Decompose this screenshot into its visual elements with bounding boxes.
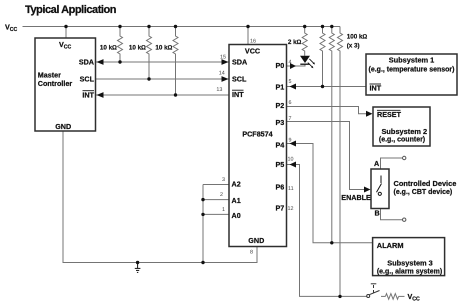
svg-text:Typical Application: Typical Application	[25, 4, 117, 16]
svg-text:SDA: SDA	[232, 58, 247, 67]
svg-text:INT: INT	[232, 90, 244, 99]
svg-text:10: 10	[288, 157, 294, 163]
svg-text:(x 3): (x 3)	[347, 42, 360, 49]
svg-text:Subsystem 1: Subsystem 1	[389, 56, 435, 65]
svg-text:Controlled Device: Controlled Device	[394, 179, 457, 188]
svg-text:A: A	[374, 159, 379, 168]
svg-text:8: 8	[250, 249, 253, 255]
svg-text:2: 2	[220, 192, 223, 198]
svg-text:2 kΩ: 2 kΩ	[288, 39, 302, 46]
svg-text:6: 6	[289, 100, 292, 106]
svg-text:P4: P4	[276, 141, 285, 150]
svg-text:9: 9	[289, 138, 292, 144]
svg-text:15: 15	[220, 54, 226, 60]
svg-text:(e.g., CBT device): (e.g., CBT device)	[394, 189, 453, 196]
svg-text:INT: INT	[370, 84, 382, 93]
svg-text:B: B	[375, 209, 380, 218]
svg-text:16: 16	[250, 39, 256, 45]
svg-text:ENABLE: ENABLE	[341, 193, 371, 202]
svg-text:GND: GND	[55, 122, 71, 131]
svg-text:VCC: VCC	[5, 23, 18, 34]
svg-text:12: 12	[288, 206, 294, 212]
svg-text:(e.g., temperature sensor): (e.g., temperature sensor)	[369, 67, 455, 74]
svg-text:100 kΩ: 100 kΩ	[347, 34, 368, 41]
svg-text:P0: P0	[276, 61, 285, 70]
svg-text:INT: INT	[82, 91, 94, 100]
svg-text:Subsystem 2: Subsystem 2	[381, 127, 427, 136]
svg-text:3: 3	[222, 177, 225, 183]
svg-text:VCC: VCC	[408, 292, 421, 303]
svg-text:SCL: SCL	[232, 74, 247, 83]
svg-text:Subsystem 3: Subsystem 3	[387, 259, 433, 268]
svg-text:VCC: VCC	[245, 47, 260, 56]
svg-text:10 kΩ: 10 kΩ	[129, 45, 146, 52]
svg-text:1: 1	[222, 207, 225, 213]
svg-text:4: 4	[289, 60, 292, 66]
svg-text:P1: P1	[276, 82, 285, 91]
svg-text:10 kΩ: 10 kΩ	[155, 45, 172, 52]
svg-text:P2: P2	[276, 101, 285, 110]
svg-text:5: 5	[289, 79, 292, 85]
svg-text:GND: GND	[248, 236, 264, 245]
svg-text:Controller: Controller	[38, 79, 73, 88]
svg-text:11: 11	[288, 186, 294, 192]
svg-text:VCC: VCC	[59, 40, 72, 51]
svg-text:(e.g., counter): (e.g., counter)	[379, 136, 425, 143]
svg-text:7: 7	[289, 116, 292, 122]
svg-text:14: 14	[219, 71, 225, 77]
svg-text:RESET: RESET	[377, 110, 402, 119]
svg-text:P6: P6	[276, 183, 285, 192]
svg-text:SDA: SDA	[79, 58, 94, 67]
svg-text:SCL: SCL	[80, 74, 95, 83]
svg-text:P3: P3	[276, 118, 285, 127]
svg-text:PCF8574: PCF8574	[242, 130, 272, 139]
svg-text:P5: P5	[276, 160, 285, 169]
svg-text:P7: P7	[276, 204, 285, 213]
svg-text:ALARM: ALARM	[377, 241, 404, 250]
svg-text:A2: A2	[232, 179, 241, 188]
svg-text:(e.g., alarm system): (e.g., alarm system)	[377, 268, 442, 275]
svg-text:A0: A0	[232, 211, 241, 220]
svg-text:10 kΩ: 10 kΩ	[100, 45, 117, 52]
svg-text:13: 13	[216, 87, 222, 93]
svg-text:A1: A1	[232, 196, 241, 205]
